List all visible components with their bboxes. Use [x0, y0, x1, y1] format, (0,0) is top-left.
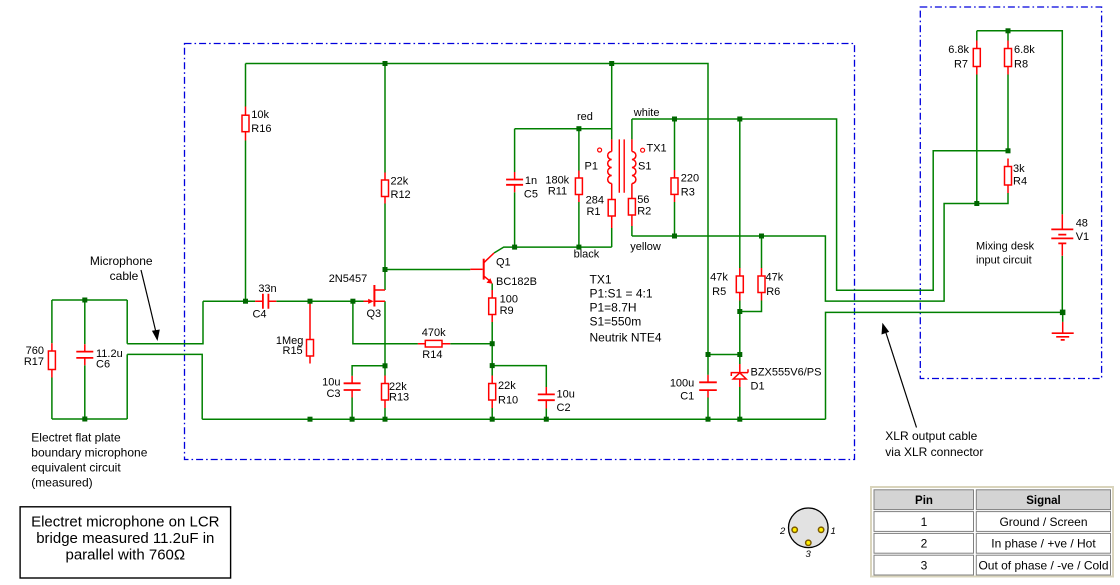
node: R15 top junction — [308, 299, 313, 304]
svg-text:10k: 10k — [251, 109, 269, 121]
node: R11 top junction — [576, 126, 581, 131]
node: D1 top link junction — [737, 352, 742, 357]
svg-text:100u: 100u — [670, 378, 694, 390]
svg-text:R14: R14 — [422, 349, 442, 361]
label R1 value — [586, 195, 604, 219]
svg-text:P1:S1 = 4:1: P1:S1 = 4:1 — [590, 287, 653, 301]
svg-text:1: 1 — [921, 515, 928, 529]
svg-text:R2: R2 — [637, 206, 651, 218]
wire: microphone cable lower conductor — [127, 354, 202, 419]
svg-text:R7: R7 — [954, 59, 968, 71]
node: mic top junction — [82, 298, 87, 303]
node: R5/R6/D1 junction — [737, 309, 742, 314]
svg-text:yellow: yellow — [630, 241, 661, 253]
wire: C5 column — [514, 129, 516, 247]
svg-text:22k: 22k — [391, 176, 409, 188]
label Q3 designator — [367, 308, 382, 320]
wire: TX1 secondary top (white) — [631, 119, 633, 139]
svg-text:1: 1 — [831, 526, 836, 537]
svg-text:R17: R17 — [24, 356, 44, 368]
wire: mic box bottom — [52, 418, 127, 420]
node: R15 ground junction — [308, 417, 313, 422]
note microphone cable — [90, 254, 153, 283]
svg-text:C6: C6 — [96, 359, 110, 371]
wire: TX1 primary top feed — [611, 64, 613, 140]
svg-text:R10: R10 — [498, 395, 518, 407]
wire: white conductor to mixing desk — [632, 119, 1008, 290]
wire: Q3 drain link — [384, 270, 386, 291]
svg-text:C2: C2 — [557, 402, 571, 414]
transformer TX1 primary winding P1 — [608, 139, 612, 199]
svg-text:R16: R16 — [251, 123, 271, 135]
node: C3 ground junction — [350, 417, 355, 422]
resistor R7 6.8k — [973, 41, 980, 75]
svg-text:284: 284 — [586, 195, 604, 207]
svg-text:R3: R3 — [681, 187, 695, 199]
node: R13 ground junction — [383, 417, 388, 422]
wire: D1 column — [739, 312, 741, 420]
zener diode D1 BZX55 — [731, 364, 748, 387]
svg-text:boundary microphone: boundary microphone — [31, 446, 147, 460]
label C4 value — [252, 283, 276, 321]
wire: screen/ground conductor to mixing desk — [826, 312, 1063, 419]
capacitor C2 10u — [538, 387, 555, 409]
transformer TX1 phase dot secondary — [641, 148, 645, 152]
battery V1 48V — [1051, 214, 1073, 255]
label R2 value — [637, 194, 651, 218]
svg-text:Signal: Signal — [1026, 495, 1061, 507]
svg-text:3: 3 — [921, 558, 928, 572]
resistor R1 284 — [608, 200, 615, 248]
label R9 value — [500, 294, 518, 317]
wire: R16 column — [245, 64, 247, 302]
wire: input signal wire to C4 — [203, 300, 255, 302]
svg-text:R5: R5 — [712, 286, 726, 298]
node: V1/ground/screen junction — [1060, 310, 1066, 316]
wire: C3 branch — [352, 366, 385, 419]
svg-text:22k: 22k — [498, 380, 516, 392]
svg-text:TX1: TX1 — [647, 143, 667, 155]
svg-text:black: black — [574, 249, 600, 261]
resistor R4 3k — [1005, 159, 1012, 194]
svg-text:P1: P1 — [585, 161, 598, 173]
note box: electret microphone on LCR bridge — [20, 507, 231, 578]
node: D1 ground junction — [737, 417, 742, 422]
svg-text:Mixing desk: Mixing desk — [976, 241, 1035, 253]
svg-text:470k: 470k — [422, 327, 446, 339]
svg-text:equivalent circuit: equivalent circuit — [31, 461, 121, 475]
svg-text:TX1: TX1 — [590, 273, 612, 287]
wire: mic box right lower — [126, 354, 128, 419]
resistor R12 22k — [382, 173, 389, 204]
svg-text:via XLR connector: via XLR connector — [885, 445, 983, 459]
svg-text:XLR output cable: XLR output cable — [885, 429, 977, 443]
capacitor C5 1n — [506, 172, 523, 192]
svg-text:C3: C3 — [326, 388, 340, 400]
label TX1 designator — [647, 143, 667, 155]
label P1 winding — [585, 161, 598, 173]
wire: ground rail (bottom) — [202, 418, 825, 420]
wire: V1 bottom lead — [1061, 256, 1063, 313]
wire: R11 column — [578, 129, 580, 247]
wire: C1 link — [708, 354, 740, 356]
note XLR output cable — [885, 429, 983, 459]
node: R6 top junction (yellow) — [759, 234, 764, 239]
label node white — [633, 107, 660, 119]
svg-text:cable: cable — [110, 269, 139, 283]
wire: R8 column — [1007, 31, 1009, 151]
wire: mic box top — [52, 299, 127, 301]
svg-text:3: 3 — [806, 549, 812, 560]
resistor R2 56 — [628, 199, 635, 227]
wire: ground symbol stub — [1062, 312, 1064, 322]
note electret flat plate — [31, 431, 147, 490]
svg-text:bridge measured 11.2uF in: bridge measured 11.2uF in — [36, 530, 214, 547]
svg-text:48: 48 — [1076, 218, 1088, 230]
node: R8 top junction — [1006, 28, 1011, 33]
XLR pin 1 — [818, 527, 823, 532]
capacitor C3 10u — [344, 376, 361, 398]
resistor R17 760 — [48, 343, 55, 377]
label C5 value — [524, 175, 538, 201]
label R17 value — [24, 345, 44, 368]
mixing desk input circuit enclosure (dash-dot box) — [920, 7, 1101, 379]
label C1 value — [670, 378, 694, 403]
XLR connector face — [789, 508, 829, 548]
svg-text:S1=550m: S1=550m — [590, 315, 642, 329]
label R14 value — [422, 327, 446, 361]
svg-text:3k: 3k — [1013, 163, 1025, 175]
wire: gate to R14 (bootstrap) — [353, 301, 418, 344]
label node red — [577, 111, 593, 123]
ground symbol (mixing desk) — [1052, 322, 1074, 340]
label C6 value — [96, 348, 123, 370]
wire: R3 column — [674, 119, 676, 236]
node: mic bottom junction — [82, 417, 87, 422]
label C2 value — [557, 389, 575, 415]
svg-text:R11: R11 — [548, 186, 567, 198]
node: C5 bottom junction — [512, 245, 517, 250]
svg-text:red: red — [577, 111, 593, 123]
label R7 value — [948, 44, 969, 71]
node: R8/R4/white junction — [1006, 148, 1011, 153]
wire: R7 column — [976, 31, 978, 204]
resistor R3 220 — [671, 170, 678, 202]
svg-text:33n: 33n — [258, 283, 276, 295]
svg-text:Electret flat plate: Electret flat plate — [31, 431, 121, 445]
label R10 value — [498, 380, 518, 407]
svg-text:56: 56 — [637, 194, 649, 206]
svg-text:Ground / Screen: Ground / Screen — [999, 515, 1087, 529]
svg-text:1n: 1n — [525, 175, 537, 187]
node: gate/R14 junction — [350, 299, 355, 304]
svg-text:C5: C5 — [524, 189, 538, 201]
node: R5 top junction (white) — [737, 117, 742, 122]
label R3 value — [681, 173, 699, 199]
svg-text:R8: R8 — [1014, 59, 1028, 71]
svg-text:V1: V1 — [1076, 231, 1089, 243]
svg-text:47k: 47k — [710, 272, 728, 284]
label V1 value — [1076, 218, 1089, 243]
svg-text:Q1: Q1 — [496, 257, 511, 269]
XLR pin labels — [779, 526, 836, 560]
node: R10 ground junction — [490, 417, 495, 422]
svg-text:47k: 47k — [766, 272, 784, 284]
resistor R6 47k — [758, 268, 765, 301]
svg-text:220: 220 — [681, 173, 699, 185]
node: R3 top junction (white) — [672, 117, 677, 122]
svg-text:P1=8.7H: P1=8.7H — [590, 301, 637, 315]
capacitor C4 33n — [255, 294, 276, 309]
XLR pin 3 — [806, 540, 811, 545]
label S1 winding — [638, 161, 651, 173]
wire: Q3 source column — [384, 301, 386, 419]
svg-text:2N5457: 2N5457 — [329, 273, 368, 285]
wire: red node top wire — [515, 128, 612, 130]
svg-text:parallel with 760Ω: parallel with 760Ω — [65, 547, 185, 564]
svg-text:6.8k: 6.8k — [948, 44, 969, 56]
capacitor C6 11.2u — [76, 344, 93, 365]
svg-text:R6: R6 — [766, 286, 780, 298]
svg-text:R1: R1 — [586, 206, 600, 218]
resistor R16 10k — [242, 107, 249, 141]
label R13 value — [389, 381, 409, 404]
resistor R5 47k — [736, 268, 743, 301]
note TX1 specifications — [590, 273, 662, 345]
node: TX1 top rail junction — [609, 61, 614, 66]
svg-text:D1: D1 — [751, 381, 765, 393]
wire: R5 column — [739, 119, 741, 312]
svg-text:10u: 10u — [557, 389, 575, 401]
svg-text:Electret microphone on LCR: Electret microphone on LCR — [31, 514, 220, 531]
node: R11 bottom junction — [576, 245, 581, 250]
label node black — [574, 249, 600, 261]
label R16 value — [251, 109, 271, 135]
node: Q3 source/C3/R13 junction — [383, 363, 388, 368]
transformer TX1 secondary winding S1 — [632, 139, 636, 198]
transformer TX1 core — [619, 139, 624, 192]
node: R12/Q1 base/Q3 drain junction — [383, 267, 388, 272]
resistor R8 6.8k — [1005, 41, 1012, 75]
XLR pointer arrow — [882, 323, 917, 428]
label Q3 type 2N5457 — [329, 273, 368, 285]
svg-text:Out of phase / -ve / Cold: Out of phase / -ve / Cold — [978, 558, 1108, 572]
transistor Q3 2N5457 (JFET) — [364, 285, 386, 307]
capacitor C1 100u — [699, 375, 717, 398]
svg-text:R15: R15 — [283, 345, 303, 357]
label R4 value — [1013, 163, 1027, 188]
resistor R10 22k — [489, 376, 496, 409]
label R15 value — [276, 335, 304, 357]
resistor R14 470k — [418, 340, 450, 347]
node: R16 bottom junction — [243, 299, 248, 304]
wire: R14 to emitter column — [450, 343, 492, 345]
svg-text:6.8k: 6.8k — [1014, 44, 1035, 56]
svg-text:100: 100 — [500, 294, 518, 306]
wire: TX1 secondary bottom (yellow) — [631, 226, 633, 236]
resistor R15 1Meg — [307, 301, 314, 363]
resistor R9 100 — [489, 290, 496, 322]
label R6 value — [766, 272, 784, 298]
wire: R6 column — [740, 236, 762, 312]
pin/signal table — [871, 487, 1113, 577]
wire: C2 branch — [492, 366, 546, 420]
resistor R11 180k — [575, 171, 582, 203]
wire: R12 column — [384, 64, 386, 270]
transistor Q1 BC182B (NPN) — [470, 253, 494, 284]
svg-text:R9: R9 — [500, 305, 514, 317]
XLR pin 2 — [792, 527, 797, 532]
label R12 value — [391, 176, 411, 202]
transformer TX1 phase dot primary — [598, 148, 602, 152]
svg-text:Q3: Q3 — [367, 308, 382, 320]
node: C2 ground junction — [544, 417, 549, 422]
node: R7/yellow junction — [974, 201, 979, 206]
resistor R13 22k — [382, 376, 389, 409]
svg-text:Neutrik NTE4: Neutrik NTE4 — [590, 331, 662, 345]
svg-text:C4: C4 — [252, 309, 266, 321]
label R8 value — [1014, 44, 1035, 71]
svg-text:(measured): (measured) — [31, 476, 92, 490]
node: C1 top junction — [706, 352, 711, 357]
svg-text:input circuit: input circuit — [976, 255, 1032, 267]
wire: Q1 base wire — [385, 269, 470, 271]
wire: mixing desk top rail — [977, 31, 1063, 215]
svg-text:2: 2 — [779, 526, 786, 537]
svg-text:R12: R12 — [391, 189, 411, 201]
node: C1 ground junction — [706, 417, 711, 422]
svg-text:C1: C1 — [680, 391, 694, 403]
svg-text:Microphone: Microphone — [90, 254, 153, 268]
svg-text:white: white — [633, 107, 660, 119]
label C3 value — [322, 377, 340, 400]
wire: mic box left (R17 column) — [51, 300, 53, 419]
label D1 type — [751, 367, 822, 393]
main amplifier circuit enclosure (dash-dot box) — [185, 44, 855, 460]
node: emitter/C2 junction — [490, 363, 495, 368]
note mixing desk — [976, 241, 1035, 267]
wire: Q1 emitter / R9 / R10 column — [491, 284, 493, 420]
label R11 value — [545, 175, 569, 198]
wire: C4 to Q3 gate node — [276, 300, 363, 302]
wire: C6 column — [84, 300, 86, 419]
svg-text:2: 2 — [921, 537, 928, 551]
wire: yellow conductor to mixing desk — [632, 193, 1008, 301]
label R5 value — [710, 272, 728, 298]
svg-text:BC182B: BC182B — [496, 276, 537, 288]
svg-text:R13: R13 — [389, 392, 409, 404]
microphone cable pointer arrow — [141, 270, 160, 341]
svg-text:Pin: Pin — [915, 495, 933, 507]
node: R3 bottom junction (yellow) — [672, 234, 677, 239]
wire: C1 column — [707, 355, 709, 420]
svg-text:S1: S1 — [638, 161, 651, 173]
svg-text:In phase / +ve / Hot: In phase / +ve / Hot — [991, 537, 1096, 551]
svg-text:10u: 10u — [322, 377, 340, 389]
node: R12 top rail junction — [383, 61, 388, 66]
label node yellow — [630, 241, 661, 253]
svg-text:R4: R4 — [1013, 176, 1027, 188]
label Q1 designator — [496, 257, 537, 289]
svg-text:BZX555V6/PS: BZX555V6/PS — [751, 367, 822, 379]
node: R14/emitter junction — [490, 341, 495, 346]
wire: microphone cable upper conductor — [127, 301, 203, 344]
wire: Q1 collector node (black) — [494, 247, 612, 253]
wire: V+ top rail — [246, 64, 709, 355]
wire: mic box right upper — [126, 300, 128, 344]
